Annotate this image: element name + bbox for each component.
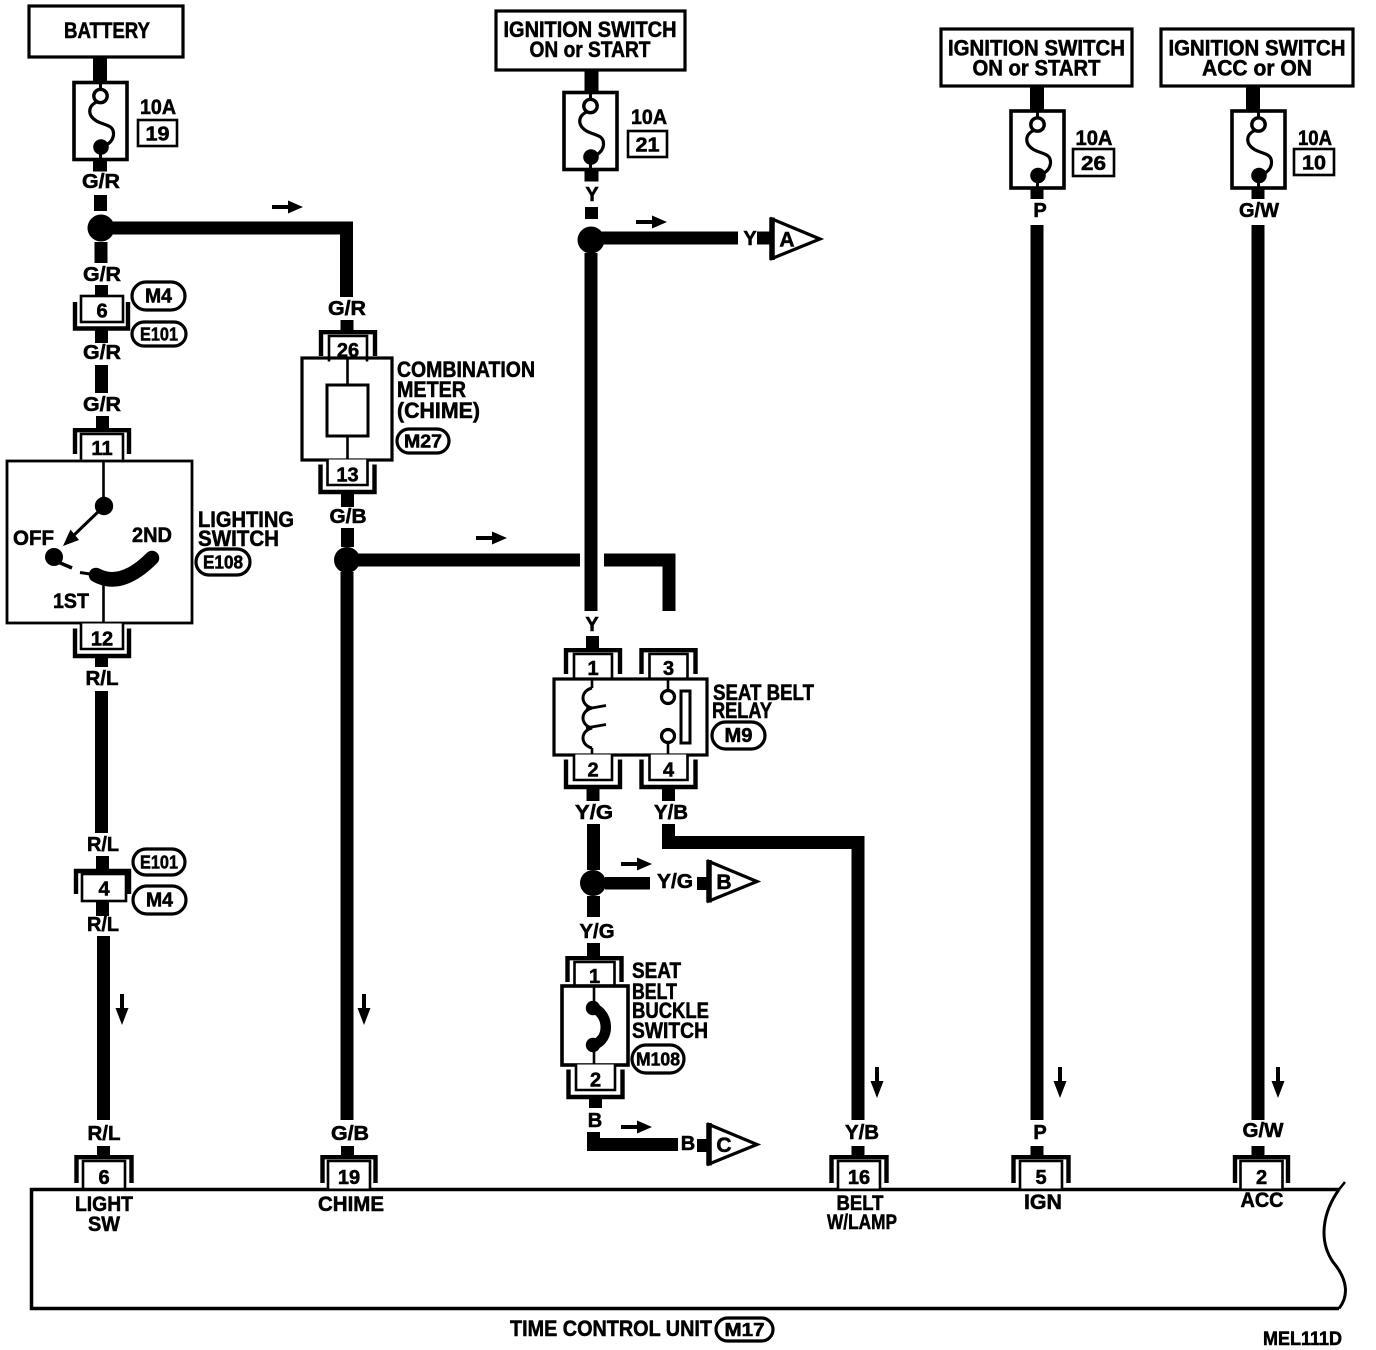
- svg-text:10A: 10A: [1076, 127, 1113, 150]
- relay switch contacts: [662, 679, 691, 755]
- wire label G/R col2: [328, 298, 367, 320]
- svg-text:A: A: [779, 229, 794, 252]
- wire label R/L: [88, 1123, 121, 1145]
- svg-text:P: P: [1033, 200, 1046, 222]
- svg-text:R/L: R/L: [86, 668, 119, 690]
- svg-text:G/B: G/B: [330, 506, 367, 528]
- lighting switch box: [7, 461, 192, 623]
- svg-text:1ST: 1ST: [53, 590, 89, 613]
- svg-text:TIME CONTROL UNIT: TIME CONTROL UNIT: [510, 1316, 713, 1341]
- wire segment below connector 4: [96, 901, 109, 916]
- label SEAT BELT RELAY: [712, 680, 814, 723]
- wire R/L long segment: [95, 691, 108, 833]
- svg-text:G/R: G/R: [83, 264, 122, 286]
- wire segment to TCU pin 2: [1252, 1146, 1265, 1156]
- seat belt buckle switch box: [562, 986, 628, 1065]
- branch wire to connector A: [591, 232, 738, 245]
- svg-text:R/L: R/L: [87, 914, 119, 936]
- wire segment to connector 11: [96, 416, 109, 428]
- wire label Y at branch: [743, 228, 757, 250]
- seat belt relay box: [554, 679, 707, 755]
- wire fuse 26 down: [1031, 188, 1044, 199]
- connector 12 below lighting switch: [75, 624, 129, 657]
- wire segment to buckle switch pin 1: [587, 943, 600, 956]
- relay connector pin 4: [642, 755, 696, 788]
- svg-text:26: 26: [1081, 153, 1106, 175]
- wire segment below junction: [95, 242, 108, 263]
- svg-text:19: 19: [146, 124, 170, 146]
- svg-text:ACC or ON: ACC or ON: [1202, 56, 1312, 81]
- wire segment below connector 6: [95, 330, 108, 343]
- harness connector oval E101: [133, 849, 185, 875]
- wire label P: [1033, 200, 1046, 222]
- connector 4 (E101/M4): [76, 871, 129, 901]
- wire stub before triangle B: [697, 877, 711, 890]
- fuse number box 21: [628, 131, 667, 157]
- wire segment to TCU pin 19: [341, 1146, 354, 1158]
- wire fuse 21 down: [585, 170, 599, 182]
- harness connector oval M108: [632, 1045, 684, 1073]
- svg-text:MEL111D: MEL111D: [1263, 1329, 1342, 1350]
- TCU connector pin 6: [77, 1157, 132, 1189]
- svg-text:M4: M4: [145, 286, 173, 308]
- fuse rating 10A: [140, 96, 176, 119]
- label TIME CONTROL UNIT: [510, 1316, 713, 1341]
- wire segment to TCU pin 6: [97, 1146, 110, 1158]
- svg-text:10A: 10A: [1298, 127, 1332, 150]
- wire R/L to time control unit: [97, 936, 110, 1120]
- meter internal line bottom: [346, 436, 349, 459]
- fuse number box 19: [138, 120, 177, 146]
- svg-text:Y/G: Y/G: [575, 802, 613, 824]
- wire segment below connector 12: [95, 655, 108, 667]
- flow arrow right B: [621, 1121, 652, 1134]
- fuse number box 26: [1073, 149, 1114, 176]
- svg-text:11: 11: [91, 438, 112, 460]
- wire Y/G down: [587, 896, 600, 917]
- svg-text:19: 19: [338, 1167, 360, 1189]
- wire segment below relay pin 4: [662, 787, 675, 801]
- svg-text:M9: M9: [725, 725, 753, 747]
- svg-text:Y/B: Y/B: [654, 802, 688, 824]
- svg-text:16: 16: [848, 1167, 870, 1189]
- fuse 10A #26: [1011, 111, 1064, 188]
- wire stub before triangle C: [697, 1139, 711, 1152]
- buckle switch blade: [586, 987, 606, 1064]
- junction dot col3: [578, 227, 605, 254]
- junction dot Y/G: [580, 870, 606, 896]
- branch wire to seat belt relay pin 3: [347, 554, 676, 612]
- switch pivot dot: [95, 497, 113, 515]
- fuse 10A #10: [1232, 111, 1285, 188]
- wire segment: [95, 365, 108, 393]
- svg-text:SWITCH: SWITCH: [632, 1018, 708, 1043]
- fuse rating 10A: [1298, 127, 1332, 150]
- svg-text:G/B: G/B: [331, 1123, 369, 1145]
- wire segment to TCU pin 16: [852, 1146, 865, 1158]
- connector 13 below combination meter: [321, 460, 375, 493]
- svg-text:1: 1: [587, 658, 598, 680]
- wire Y/B relay pin 4 to TCU: [669, 824, 859, 1120]
- junction dot col2: [334, 547, 360, 573]
- wire chime to TCU: [341, 572, 354, 1120]
- wire label G/B: [331, 1123, 369, 1145]
- label LIGHT SW: [75, 1193, 133, 1236]
- TCU connector pin 2: [1235, 1157, 1288, 1189]
- page connector triangle B: [709, 860, 757, 903]
- relay connector pin 3: [642, 650, 696, 680]
- harness connector oval E101: [132, 322, 186, 346]
- wire label G/R: [83, 342, 122, 364]
- OFF contact dot: [45, 548, 72, 568]
- wire segment to connector 4: [96, 856, 109, 870]
- relay coil: [583, 679, 606, 755]
- wire ignition to fuse 26: [1030, 86, 1044, 111]
- TCU connector pin 19: [323, 1157, 376, 1189]
- svg-text:ACC: ACC: [1241, 1189, 1284, 1212]
- svg-text:P: P: [1033, 1122, 1046, 1144]
- harness connector oval M4: [132, 282, 185, 310]
- wire label Y/G at branch: [657, 871, 693, 893]
- svg-text:SW: SW: [88, 1213, 120, 1236]
- svg-text:4: 4: [98, 879, 110, 901]
- svg-text:M4: M4: [146, 890, 174, 912]
- wire label Y/G: [575, 802, 613, 824]
- wire label R/L: [87, 914, 119, 936]
- fuse number box 10: [1294, 149, 1334, 175]
- wire segment below buckle pin 2: [589, 1096, 602, 1108]
- connector 26 into combination meter: [321, 332, 375, 362]
- svg-text:10A: 10A: [631, 106, 667, 129]
- svg-text:2: 2: [587, 760, 598, 782]
- fuse 10A #19: [74, 83, 127, 160]
- junction dot col1: [88, 215, 115, 242]
- connector 11 into lighting switch: [75, 430, 129, 460]
- buckle switch connector pin 1: [568, 958, 622, 988]
- svg-text:E108: E108: [203, 553, 243, 573]
- svg-text:M27: M27: [404, 432, 442, 452]
- branch wire to combination meter: [101, 228, 347, 297]
- wire label B at branch: [681, 1133, 695, 1155]
- svg-text:B: B: [588, 1110, 602, 1132]
- wire segment to junction: [341, 528, 354, 547]
- wire P to TCU: [1031, 225, 1044, 1120]
- svg-text:G/R: G/R: [82, 171, 121, 193]
- wire label G/R: [83, 394, 122, 416]
- wire label G/R: [82, 171, 121, 193]
- svg-text:E101: E101: [140, 325, 178, 345]
- svg-text:G/W: G/W: [1239, 200, 1279, 222]
- svg-text:10: 10: [1302, 153, 1326, 175]
- label BELT W/LAMP: [827, 1192, 897, 1234]
- svg-text:Y/G: Y/G: [580, 921, 615, 943]
- label 2ND: [132, 524, 172, 547]
- svg-text:ON or START: ON or START: [973, 56, 1102, 81]
- wire label G/R: [83, 264, 122, 286]
- svg-text:IGN: IGN: [1024, 1191, 1062, 1214]
- wire label G/W: [1239, 200, 1279, 222]
- svg-text:G/R: G/R: [83, 342, 122, 364]
- svg-text:G/R: G/R: [328, 298, 367, 320]
- svg-text:Y/G: Y/G: [657, 871, 693, 893]
- svg-text:M108: M108: [636, 1050, 680, 1070]
- flow arrow down Y/B: [871, 1067, 884, 1098]
- wire label R/L: [86, 668, 119, 690]
- svg-text:SWITCH: SWITCH: [198, 526, 279, 551]
- svg-text:W/LAMP: W/LAMP: [827, 1211, 897, 1234]
- label SEAT BELT BUCKLE SWITCH: [632, 958, 709, 1043]
- svg-text:B: B: [716, 871, 731, 894]
- svg-text:Y: Y: [585, 614, 599, 636]
- relay connector pin 2: [566, 755, 620, 788]
- svg-text:13: 13: [336, 465, 358, 487]
- wire ignition to fuse 21: [585, 70, 599, 93]
- wire segment to connector 26: [341, 320, 354, 330]
- svg-text:BATTERY: BATTERY: [64, 18, 150, 43]
- label 1ST: [53, 590, 89, 613]
- flow arrow down P: [1054, 1067, 1067, 1098]
- wire label G/B: [330, 506, 367, 528]
- svg-text:5: 5: [1035, 1167, 1046, 1189]
- svg-text:21: 21: [636, 135, 660, 157]
- page connector triangle C: [709, 1123, 757, 1166]
- svg-text:R/L: R/L: [88, 1123, 121, 1145]
- label IGN: [1024, 1191, 1062, 1214]
- harness connector oval M9: [712, 722, 765, 749]
- svg-text:E101: E101: [140, 853, 178, 873]
- wire G/W to TCU: [1252, 225, 1265, 1120]
- svg-text:RELAY: RELAY: [712, 698, 772, 723]
- TCU connector pin 5: [1014, 1157, 1069, 1189]
- ignition switch ON-START box (center): [496, 11, 685, 70]
- svg-text:C: C: [716, 1134, 731, 1157]
- wire label Y: [585, 184, 599, 206]
- connector 6 (M4/E101): [75, 296, 128, 329]
- label COMBINATION METER (CHIME): [397, 357, 535, 423]
- fuse rating 10A: [1076, 127, 1113, 150]
- switch output line: [102, 584, 105, 622]
- time control unit box M17: [32, 1182, 1346, 1309]
- svg-text:G/W: G/W: [1243, 1120, 1284, 1142]
- flow arrow right on branch: [272, 201, 303, 214]
- fuse rating 10A: [631, 106, 667, 129]
- svg-text:2: 2: [590, 1070, 601, 1092]
- svg-text:Y/B: Y/B: [845, 1122, 879, 1144]
- harness connector oval M27: [397, 429, 449, 453]
- flow arrow right col3: [636, 216, 667, 229]
- ignition switch ACC-ON box: [1161, 29, 1353, 86]
- svg-text:ON or START: ON or START: [530, 37, 651, 62]
- meter internal line top: [346, 359, 349, 385]
- TCU connector pin 16: [832, 1157, 887, 1189]
- wire label Y/G: [580, 921, 615, 943]
- wire segment to junction: [585, 207, 598, 219]
- fuse 10A #21: [564, 93, 617, 170]
- switch common line: [102, 462, 105, 497]
- svg-text:CHIME: CHIME: [318, 1193, 384, 1216]
- wire segment G/R: [94, 195, 107, 211]
- flow arrow right Y/G: [621, 858, 652, 871]
- wire battery to fuse 19: [93, 57, 107, 83]
- wire segment below connector 13: [341, 492, 354, 507]
- svg-text:M17: M17: [725, 1320, 765, 1340]
- wire label R/L: [87, 834, 119, 856]
- wire label Y: [585, 614, 599, 636]
- wire segment to connector 6: [95, 285, 108, 296]
- wire fuse 10 down: [1252, 188, 1265, 199]
- svg-text:6: 6: [98, 1167, 109, 1189]
- wire Y/G to junction: [587, 824, 600, 870]
- battery supply box: [29, 6, 183, 57]
- svg-text:(CHIME): (CHIME): [397, 398, 480, 423]
- svg-text:Y: Y: [585, 184, 599, 206]
- wire label P: [1033, 1122, 1046, 1144]
- svg-text:OFF: OFF: [13, 527, 54, 550]
- svg-text:3: 3: [663, 658, 674, 680]
- ignition switch ON-START box (right): [941, 29, 1132, 86]
- flow arrow down col1: [116, 994, 129, 1025]
- switch arm with arrow to OFF: [63, 510, 100, 546]
- harness connector oval M17: [716, 1318, 773, 1341]
- wire Y down to relay: [585, 253, 598, 611]
- combination meter box: [302, 358, 392, 460]
- svg-text:2: 2: [1256, 1167, 1267, 1189]
- harness connector oval M4: [133, 886, 186, 914]
- buckle switch connector pin 2: [569, 1065, 623, 1098]
- flow arrow down G/W: [1272, 1067, 1285, 1098]
- diagram id MEL111D: [1263, 1329, 1342, 1350]
- branch wire Y/G to connector B: [605, 877, 650, 890]
- label OFF: [13, 527, 54, 550]
- wire label G/W: [1243, 1120, 1284, 1142]
- svg-text:Y: Y: [743, 228, 757, 250]
- wire ignition to fuse 10: [1246, 86, 1260, 111]
- wire label B: [588, 1110, 602, 1132]
- wire segment below relay pin 2: [587, 787, 600, 801]
- harness connector oval E108: [196, 549, 250, 575]
- svg-text:12: 12: [91, 629, 113, 651]
- wire segment to TCU pin 5: [1031, 1146, 1044, 1158]
- relay connector pin 1: [566, 650, 620, 680]
- svg-text:R/L: R/L: [87, 834, 119, 856]
- switch 2nd position contact crescent: [80, 558, 152, 579]
- meter internal chime element: [327, 385, 368, 436]
- svg-text:10A: 10A: [140, 96, 176, 119]
- label LIGHTING SWITCH: [198, 507, 294, 551]
- svg-text:6: 6: [96, 301, 107, 323]
- wire segment to relay pin 1: [586, 636, 599, 648]
- wire label Y/B: [845, 1122, 879, 1144]
- svg-text:2ND: 2ND: [132, 524, 172, 547]
- svg-text:B: B: [681, 1133, 695, 1155]
- flow arrow down col2: [358, 994, 371, 1025]
- wire fuse 19 down: [93, 160, 107, 172]
- label CHIME: [318, 1193, 384, 1216]
- label ACC: [1241, 1189, 1284, 1212]
- wire to connector C: [594, 1132, 679, 1145]
- flow arrow right on relay branch: [476, 532, 507, 545]
- wire stub before triangle A: [757, 232, 771, 245]
- wire label Y/B: [654, 802, 688, 824]
- svg-text:4: 4: [663, 760, 675, 782]
- page connector triangle A: [772, 218, 820, 261]
- svg-text:G/R: G/R: [83, 394, 122, 416]
